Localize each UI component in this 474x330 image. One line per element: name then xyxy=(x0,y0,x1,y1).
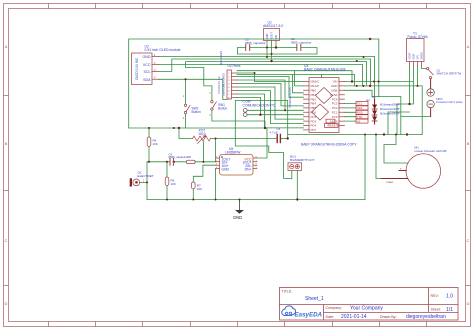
switch S1 xyxy=(427,67,462,78)
junction at 285,110.3 xyxy=(284,109,286,111)
svg-text:input: input xyxy=(387,180,394,184)
junction at 167,199.5 xyxy=(166,198,168,200)
svg-text:COMUNICACION: COMUNICACION xyxy=(288,87,292,108)
junction at 365,134.5 xyxy=(364,133,366,135)
svg-text:0.91 inch OLED module: 0.91 inch OLED module xyxy=(145,48,181,52)
wire U3 pin3 step xyxy=(237,80,285,110)
junction at 276,47.5 xyxy=(275,46,277,48)
wire mic input line y161.8 xyxy=(147,146,216,161)
wire mic to riser xyxy=(140,181,147,183)
wire R6 bottom xyxy=(166,185,168,199)
regulator U1 xyxy=(263,21,283,41)
buzzer BU1 xyxy=(288,155,315,171)
svg-text:SDA: SDA xyxy=(143,78,151,82)
svg-text:BABY ORANGUTAN B-328/SA COPY: BABY ORANGUTAN B-328/SA COPY xyxy=(301,142,357,146)
svg-text:M2B: M2B xyxy=(332,89,338,93)
junction at 376,134.5 xyxy=(375,133,377,135)
svg-text:2IN+: 2IN+ xyxy=(244,168,251,172)
wire button rail y128 xyxy=(129,128,267,158)
title block xyxy=(280,288,459,321)
junction at 149,128 xyxy=(148,127,150,129)
svg-text:PC3: PC3 xyxy=(332,102,338,106)
junction at 417.5,85.9 xyxy=(416,85,418,87)
svg-text:VIN: VIN xyxy=(333,80,338,84)
svg-text:GND: GND xyxy=(412,54,416,60)
wire diode feed xyxy=(375,82,401,135)
svg-text:Conector GZ 2 pines: Conector GZ 2 pines xyxy=(436,100,463,104)
wire buzzer right pin xyxy=(296,170,298,199)
junction at 370.1,85.9 xyxy=(369,85,371,87)
junction at 265,128 xyxy=(264,127,266,129)
svg-text:AMS1117-5.0: AMS1117-5.0 xyxy=(263,24,283,28)
junction at 271.5,54 xyxy=(270,53,272,55)
svg-text:GND: GND xyxy=(143,55,151,59)
junction at 409.5,104 xyxy=(408,103,410,105)
junction at 267,47.5 xyxy=(266,46,268,48)
junction at 356.8,85.9 xyxy=(356,85,358,87)
wire R7 top to opamp xyxy=(193,165,215,182)
capacitor C1 xyxy=(291,37,312,50)
wire SDA line xyxy=(159,79,228,99)
svg-text:M1A/P: M1A/P xyxy=(311,84,320,88)
svg-text:PB4: PB4 xyxy=(311,102,317,106)
junction at 173.8,128 xyxy=(173,127,175,129)
svg-text:VOUT: VOUT xyxy=(408,52,412,60)
wire Y1 GND down xyxy=(397,66,414,135)
wire POT tap to opamp xyxy=(215,139,217,162)
wire Y1 VOUT down xyxy=(409,66,411,104)
junction at 370.1,39 xyxy=(369,38,371,40)
junction at 352,81.5 xyxy=(351,80,353,82)
svg-text:D: D xyxy=(5,301,8,306)
svg-text:M2forward/SWP: M2forward/SWP xyxy=(380,112,400,116)
wire U3 pin4 step xyxy=(237,84,304,106)
svg-text:PC5A: PC5A xyxy=(330,93,338,97)
wire R6 top xyxy=(166,162,168,177)
junction at 287.7,138.5 xyxy=(287,137,289,139)
svg-text:Sheet_1: Sheet_1 xyxy=(305,296,324,302)
svg-text:PB0: PB0 xyxy=(311,89,317,93)
svg-text:SDA: SDA xyxy=(357,106,363,110)
wire R4 top xyxy=(148,128,150,137)
wire C5 right riser xyxy=(280,138,287,140)
pushbutton SW1 xyxy=(209,92,227,117)
svg-text:2021-01-14: 2021-01-14 xyxy=(341,314,367,320)
svg-text:GND: GND xyxy=(265,33,269,39)
wire U1 VIN down xyxy=(275,41,277,48)
junction at 297.3,199.5 xyxy=(296,198,298,200)
svg-text:SHDN: SHDN xyxy=(420,52,424,59)
svg-text:1.0: 1.0 xyxy=(446,293,453,299)
EasyEDA logo xyxy=(282,306,323,319)
svg-text:Linear Actuator with FB: Linear Actuator with FB xyxy=(415,149,447,153)
battery connector LIPO xyxy=(427,79,463,117)
svg-text:GND: GND xyxy=(233,215,242,220)
svg-text:RXD: RXD xyxy=(357,111,363,115)
regulator module Y1 Pololu xyxy=(407,32,429,66)
svg-text:Pololu_57V6A: Pololu_57V6A xyxy=(408,35,429,39)
junction at 378.6,81.5 xyxy=(378,80,380,82)
svg-text:0805_capacitor: 0805_capacitor xyxy=(245,41,266,45)
svg-text:SWITCH SPDT/TH: SWITCH SPDT/TH xyxy=(437,72,462,76)
wire SW2 top xyxy=(185,79,187,104)
junction at 407,134.5 xyxy=(406,133,408,135)
svg-text:EasyEDA: EasyEDA xyxy=(295,312,323,319)
wire SW1 bottom xyxy=(212,110,265,128)
header U3 Pines xyxy=(217,51,241,100)
svg-text:diegoreyesbeltran: diegoreyesbeltran xyxy=(406,314,446,320)
svg-text:GND: GND xyxy=(331,84,337,88)
svg-text:GND: GND xyxy=(222,168,230,172)
wire motor feed B xyxy=(376,135,381,179)
node COM comunicacion PC xyxy=(243,100,276,117)
potentiometer POT 100k xyxy=(193,129,211,144)
wire VIN ladder line xyxy=(237,71,352,82)
ground symbol GND xyxy=(233,200,244,221)
node net label vertical COMUNICACION xyxy=(288,87,292,108)
title block texts xyxy=(282,290,441,320)
svg-text:out: out xyxy=(366,98,370,102)
wire motor rail y134.5 xyxy=(288,134,423,136)
svg-text:D: D xyxy=(467,301,470,306)
svg-text:R5: R5 xyxy=(188,155,192,159)
junction at 149,161.8 xyxy=(148,161,150,163)
wire POT left feed xyxy=(179,128,193,139)
svg-text:100 k: 100 k xyxy=(198,132,206,136)
svg-text:POSICION GZ: POSICION GZ xyxy=(217,76,221,93)
svg-text:D1: D1 xyxy=(372,95,376,99)
OLED module U2 xyxy=(132,44,181,84)
svg-text:4.7 µF: 4.7 µF xyxy=(270,130,278,134)
svg-text:U3 Pines: U3 Pines xyxy=(228,64,241,68)
junction at 356.8,61 xyxy=(356,60,358,62)
border zone letters xyxy=(5,44,470,306)
wire U3 pin2 step xyxy=(237,77,304,98)
wire mic branch riser xyxy=(146,162,148,200)
svg-text:Company:: Company: xyxy=(326,306,342,310)
resistor R7 xyxy=(192,182,203,191)
svg-text:BABY ORANGUTAN B-328: BABY ORANGUTAN B-328 xyxy=(304,68,345,72)
junction at 203.4,161.8 xyxy=(202,161,204,163)
svg-text:0805_capacitor: 0805_capacitor xyxy=(169,155,188,159)
svg-text:SCL: SCL xyxy=(357,102,363,106)
wire M2B staircase xyxy=(345,90,379,96)
svg-text:C: C xyxy=(467,238,470,243)
svg-text:PC1: PC1 xyxy=(332,111,338,115)
svg-text:M1B/C: M1B/C xyxy=(311,80,320,84)
motor M1 linear actuator xyxy=(381,146,446,189)
svg-text:PB2: PB2 xyxy=(311,97,317,101)
junction at 215.5,138.5 xyxy=(214,137,216,139)
wire COM RX xyxy=(247,109,303,111)
resistor R4 xyxy=(147,137,158,146)
junction at 271.5,61 xyxy=(270,60,272,62)
svg-text:B: B xyxy=(5,141,8,146)
MCU U4 BABY ORANGUTAN xyxy=(301,64,357,146)
svg-text:Your Company: Your Company xyxy=(350,305,383,311)
wire POT wiper down xyxy=(202,142,204,162)
junction at 267,57 xyxy=(266,56,268,58)
svg-text:PD4: PD4 xyxy=(311,124,317,128)
svg-text:SCL: SCL xyxy=(144,70,151,74)
junction at 147,182.4 xyxy=(146,181,148,183)
op-amp U5 LM358PW xyxy=(216,147,258,175)
diode stack D1 xyxy=(366,95,400,124)
svg-text:Button: Button xyxy=(192,110,201,114)
wire GND ladder line xyxy=(159,57,375,82)
wire U4 VIN row xyxy=(345,81,413,83)
net flags right of U4 xyxy=(356,102,368,124)
wire aux row y112 xyxy=(388,112,410,135)
svg-text:OLED 0.91 INC: OLED 0.91 INC xyxy=(135,57,139,80)
wire R7 bottom xyxy=(192,189,194,200)
junction at 254.5,73 xyxy=(253,72,255,74)
svg-text:BUZZERPTH-KIT: BUZZERPTH-KIT xyxy=(290,158,315,162)
wire SCL riser ladder line xyxy=(159,59,371,86)
svg-text:COMUNICACION PC: COMUNICACION PC xyxy=(243,103,276,107)
svg-text:M1reverse/SWP: M1reverse/SWP xyxy=(380,107,400,111)
wire U1 VOUT down xyxy=(271,41,273,60)
svg-text:PB3: PB3 xyxy=(311,93,317,97)
wire POT right to C5 xyxy=(211,138,278,140)
svg-text:M1forward/SWP: M1forward/SWP xyxy=(380,103,400,107)
junction at 239.5,199.5 xyxy=(238,198,240,200)
junction at 260.5,114.7 xyxy=(259,114,261,116)
capacitor C4 xyxy=(169,152,188,165)
junction at 374,81.5 xyxy=(373,80,375,82)
wire U3 pin1 to U4 xyxy=(237,73,304,82)
junction at 384,134.5 xyxy=(383,133,385,135)
capacitor C5 xyxy=(270,127,281,143)
wire top rail VIN net xyxy=(129,39,379,128)
wire U3 pin7 step xyxy=(237,94,304,128)
svg-text:SENSORES: SENSORES xyxy=(219,51,223,66)
wire U4 GND row xyxy=(345,86,423,135)
svg-text:VCC: VCC xyxy=(143,63,151,67)
junction at 167,161.8 xyxy=(166,161,168,163)
svg-text:VIN: VIN xyxy=(416,55,420,59)
svg-text:A: A xyxy=(5,44,8,49)
capacitor C2 xyxy=(245,38,266,51)
svg-text:ELECTRET: ELECTRET xyxy=(138,174,154,178)
wire Y1 VIN down xyxy=(417,66,419,86)
wire VCC branch jog xyxy=(186,62,367,86)
wire buzzer left pin xyxy=(291,170,293,178)
wire VCC top line y74.5 xyxy=(237,75,355,86)
wire U1 GND down xyxy=(266,41,268,57)
svg-text:Drawn By:: Drawn By: xyxy=(380,315,397,319)
junction at 363.5,57 xyxy=(362,56,364,58)
wire COM TX xyxy=(247,114,303,116)
wire U3 pin6 step xyxy=(237,91,304,124)
wire VCC ladder line xyxy=(159,65,363,86)
junction at 396,134.5 xyxy=(395,133,397,135)
wire U4 pin2 branch xyxy=(293,75,304,93)
pushbutton SW2 xyxy=(183,95,201,120)
svg-text:PD2: PD2 xyxy=(311,119,317,123)
wire SW1 feed xyxy=(186,67,212,100)
svg-text:SERVOMOTORES: SERVOMOTORES xyxy=(221,73,225,96)
wire loop right edge xyxy=(287,101,289,139)
svg-text:A0: A0 xyxy=(357,119,361,123)
svg-text:TITLE:: TITLE: xyxy=(282,290,293,294)
wire ground rail xyxy=(147,199,365,201)
wire gnd riser x365 xyxy=(364,135,366,200)
wire COM loop staircase xyxy=(235,101,291,179)
svg-text:REV:: REV: xyxy=(431,294,439,298)
svg-text:10K: 10K xyxy=(171,182,176,186)
svg-text:PC0: PC0 xyxy=(332,115,338,119)
svg-text:VOUT: VOUT xyxy=(270,32,274,40)
svg-text:1/1: 1/1 xyxy=(446,307,453,313)
wire SW2 bottom xyxy=(185,114,187,128)
wire Y1 SHDN to switch xyxy=(422,66,427,69)
svg-text:Sheet:: Sheet: xyxy=(431,308,441,312)
svg-text:B: B xyxy=(467,141,470,146)
resistor R6 xyxy=(165,177,176,186)
svg-text:A: A xyxy=(467,44,470,49)
junction at 179,128 xyxy=(178,127,180,129)
svg-text:PC2: PC2 xyxy=(332,106,338,110)
wire netflag rows xyxy=(345,104,357,122)
svg-text:Button: Button xyxy=(218,107,227,111)
svg-text:VIN: VIN xyxy=(274,35,278,40)
wire U4 top pin tap xyxy=(321,75,323,78)
wire motor feed A xyxy=(384,135,408,164)
svg-text:10K: 10K xyxy=(197,187,202,191)
svg-text:10K: 10K xyxy=(153,142,158,146)
svg-text:Date:: Date: xyxy=(326,315,335,319)
svg-text:PD7: PD7 xyxy=(311,128,317,132)
svg-text:0805_capacitor: 0805_capacitor xyxy=(291,40,312,44)
junction at 215.5,199.5 xyxy=(214,198,216,200)
junction at 363.5,85.9 xyxy=(362,85,364,87)
wire LIPO return xyxy=(401,116,431,118)
junction at 185.5,79.3 xyxy=(184,78,186,80)
junction at 193.3,199.5 xyxy=(192,198,194,200)
resistor R5 xyxy=(186,155,195,163)
junction at 173.8,161.8 xyxy=(173,161,175,163)
svg-text:LM358PW: LM358PW xyxy=(225,150,241,154)
wire C2 loop xyxy=(238,48,318,55)
svg-text:C: C xyxy=(5,238,8,243)
wire U4 pin1 branch xyxy=(295,71,304,86)
svg-text:PC4: PC4 xyxy=(332,97,338,101)
wire U3 pin8 step xyxy=(237,98,261,115)
wire opamp GND to rail xyxy=(215,169,217,200)
svg-text:TXD: TXD xyxy=(357,115,362,119)
wire U3 pin5 step xyxy=(237,87,304,119)
microphone Q1 ELECTRET xyxy=(130,171,154,187)
